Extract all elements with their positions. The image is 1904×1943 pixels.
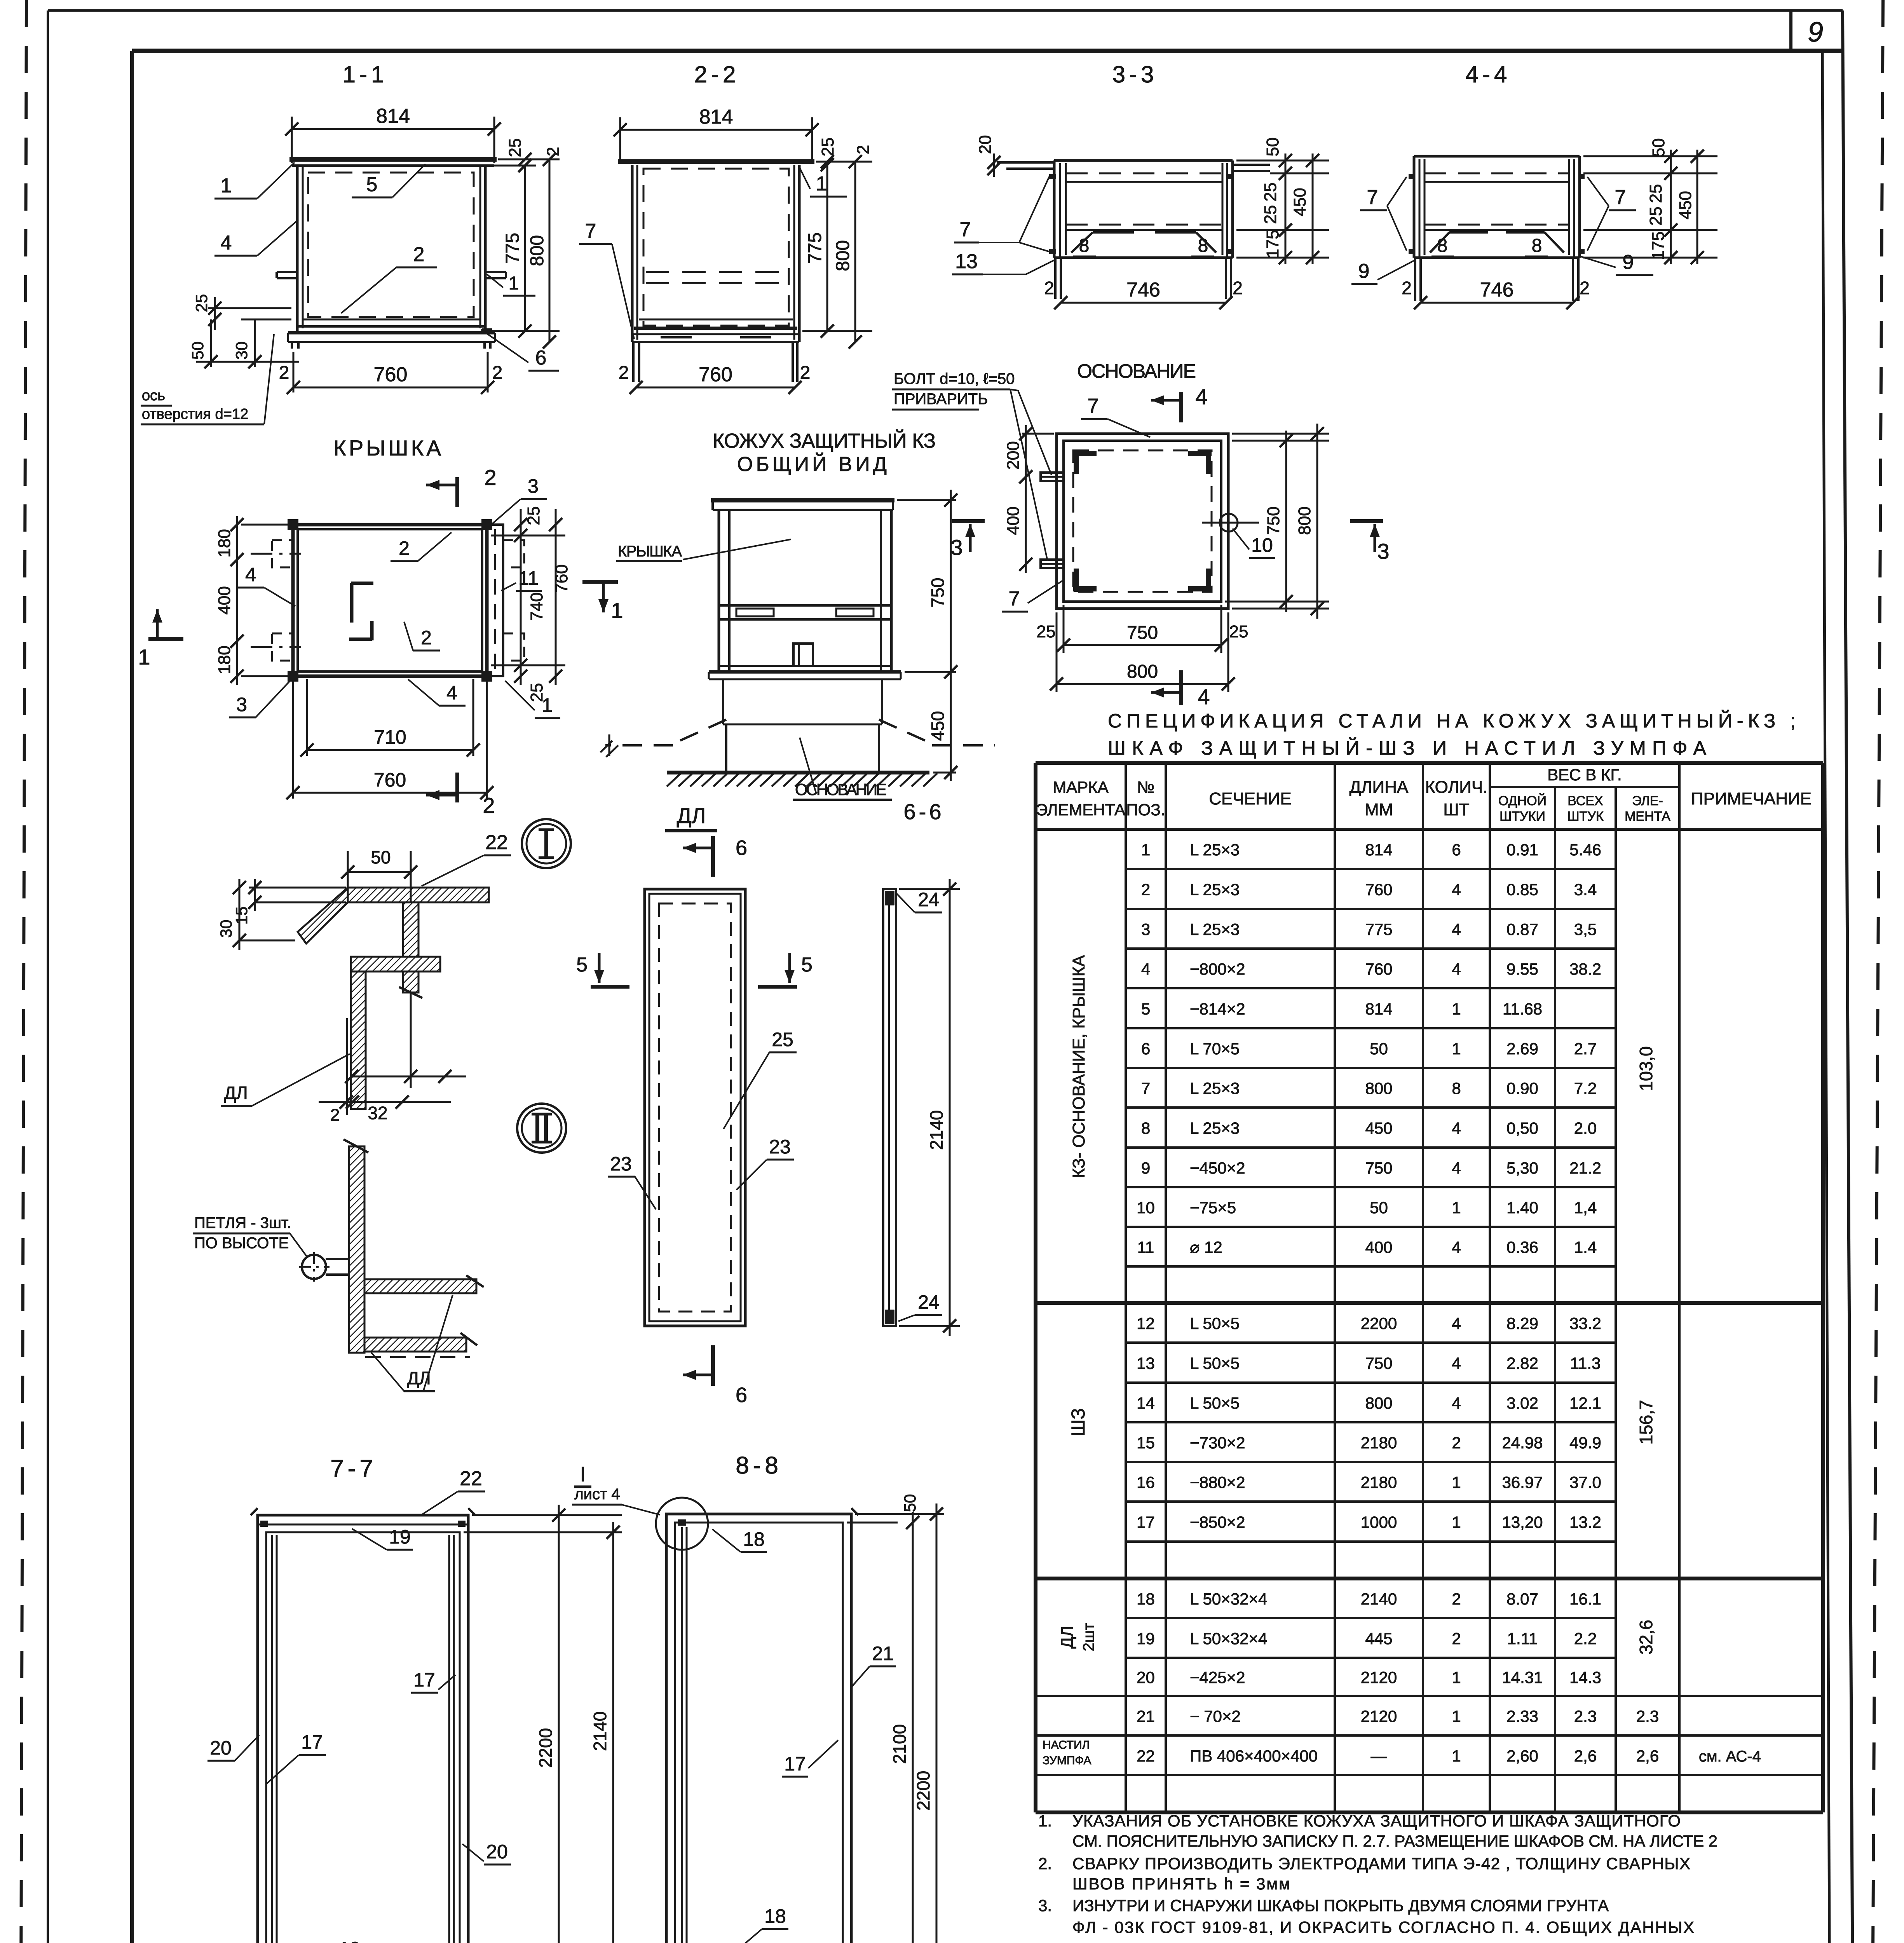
svg-text:2180: 2180 (1361, 1473, 1397, 1491)
svg-text:2.: 2. (1038, 1854, 1052, 1873)
detail II hinge (302, 1255, 326, 1279)
svg-text:ДЛ: ДЛ (224, 1083, 248, 1103)
section 2-2 legs (632, 342, 635, 382)
svg-text:400: 400 (215, 586, 234, 614)
svg-text:16: 16 (1137, 1473, 1155, 1491)
general view pedestal (722, 679, 724, 724)
svg-text:4: 4 (1452, 1394, 1461, 1412)
svg-text:11.3: 11.3 (1570, 1354, 1601, 1373)
svg-text:1.: 1. (1038, 1812, 1052, 1830)
svg-text:18: 18 (764, 1905, 786, 1927)
svg-text:6: 6 (736, 836, 747, 860)
svg-text:ШТУК: ШТУК (1567, 809, 1604, 824)
svg-text:16.1: 16.1 (1569, 1590, 1601, 1608)
svg-text:ИЗНУТРИ И СНАРУЖИ ШКАФЫ: ИЗНУТРИ И СНАРУЖИ ШКАФЫ ПОКРЫТЬ ДВУМЯ СЛ… (1072, 1896, 1609, 1915)
svg-text:−814×2: −814×2 (1190, 1000, 1245, 1018)
osnovanie left dims (1022, 433, 1054, 435)
svg-text:L 50×5: L 50×5 (1190, 1394, 1240, 1412)
svg-text:180: 180 (215, 645, 234, 674)
section 4-4 legs (1414, 258, 1416, 301)
svg-text:−450×2: −450×2 (1190, 1159, 1245, 1177)
svg-text:175: 175 (1263, 230, 1282, 258)
section 3-3 left protrusion (997, 161, 1054, 164)
svg-text:3.02: 3.02 (1506, 1394, 1538, 1412)
svg-text:СВАРКУ ПРОИЗВОДИТЬ ЭЛЕКТР: СВАРКУ ПРОИЗВОДИТЬ ЭЛЕКТРОДАМИ ТИПА Э-42… (1072, 1854, 1690, 1873)
kryshka right tabs (503, 540, 524, 567)
detail I lower vert bar (351, 971, 366, 1109)
svg-text:9: 9 (1808, 17, 1823, 48)
7-7 side strips (271, 1535, 273, 1943)
svg-text:14.3: 14.3 (1569, 1668, 1601, 1687)
svg-text:0,50: 0,50 (1506, 1119, 1538, 1137)
7-7 dims (472, 1514, 622, 1516)
svg-text:−880×2: −880×2 (1190, 1473, 1245, 1491)
section 1-1 feet (291, 342, 293, 349)
roof contour dashed (673, 720, 726, 744)
svg-text:8: 8 (1532, 235, 1542, 256)
svg-text:4: 4 (1198, 684, 1210, 709)
svg-text:1: 1 (1141, 841, 1150, 859)
section 2-2 floor (639, 319, 793, 321)
svg-text:5.46: 5.46 (1569, 841, 1601, 859)
svg-text:13: 13 (1137, 1354, 1155, 1373)
svg-text:4: 4 (1452, 1314, 1461, 1333)
section 1-1 left small dims (208, 307, 291, 309)
svg-text:8: 8 (1141, 1119, 1150, 1137)
svg-text:800: 800 (1295, 506, 1314, 535)
svg-text:21: 21 (872, 1643, 894, 1664)
osnovanie section mark 4 top (1179, 392, 1183, 422)
detail II bottom bar (364, 1338, 466, 1352)
section 1-1 walls (296, 166, 299, 331)
svg-text:см. АС-4: см. АС-4 (1699, 1748, 1761, 1765)
svg-text:1: 1 (1452, 1473, 1461, 1491)
general view bottom flange (719, 665, 891, 667)
svg-text:3,5: 3,5 (1574, 920, 1597, 938)
svg-text:746: 746 (1480, 279, 1514, 301)
kryshka right dims (491, 535, 565, 537)
DL section mark 6 bottom (711, 1345, 715, 1386)
svg-text:760: 760 (1365, 881, 1392, 899)
svg-text:750: 750 (928, 578, 948, 608)
svg-text:50: 50 (1263, 138, 1282, 157)
svg-text:103,0: 103,0 (1636, 1046, 1656, 1091)
svg-text:400: 400 (1004, 506, 1023, 535)
svg-text:12: 12 (1137, 1314, 1155, 1333)
svg-text:3: 3 (1377, 539, 1389, 563)
svg-text:1: 1 (1452, 1040, 1461, 1058)
osnovanie corner angles (1073, 451, 1097, 456)
svg-text:20: 20 (210, 1737, 232, 1759)
svg-text:746: 746 (1126, 279, 1160, 301)
svg-text:25: 25 (772, 1029, 793, 1050)
general view mid band (719, 604, 891, 607)
svg-text:СМ. ПОЯСНИТЕЛЬНУЮ ЗАПИСКУ: СМ. ПОЯСНИТЕЛЬНУЮ ЗАПИСКУ П. 2.7. РАЗМЕЩ… (1072, 1832, 1717, 1850)
svg-text:750: 750 (1365, 1159, 1392, 1177)
svg-text:25: 25 (1037, 622, 1056, 641)
svg-text:33.2: 33.2 (1569, 1314, 1601, 1333)
svg-text:1: 1 (1452, 1747, 1461, 1765)
svg-text:2140: 2140 (590, 1711, 610, 1751)
svg-text:18: 18 (743, 1528, 765, 1550)
svg-text:2: 2 (1452, 1629, 1461, 1648)
svg-text:25: 25 (1261, 183, 1280, 202)
svg-text:2,60: 2,60 (1506, 1747, 1538, 1765)
svg-text:ПРИВАРИТЬ: ПРИВАРИТЬ (894, 391, 988, 408)
svg-text:20: 20 (976, 135, 995, 154)
svg-text:4: 4 (1452, 1238, 1461, 1256)
section 2-2 lid (618, 159, 814, 164)
svg-text:УКАЗАНИЯ ОБ УСТАНОВКЕ КО: УКАЗАНИЯ ОБ УСТАНОВКЕ КОЖУХА ЗАЩИТНОГО И… (1072, 1812, 1681, 1830)
svg-text:2,6: 2,6 (1636, 1747, 1659, 1765)
svg-text:760: 760 (699, 363, 732, 386)
svg-text:лист 4: лист 4 (574, 1486, 620, 1503)
svg-text:25: 25 (1229, 622, 1248, 641)
svg-text:3: 3 (1141, 920, 1150, 938)
section 3-3 legs (1054, 258, 1057, 299)
svg-text:12.1: 12.1 (1569, 1394, 1601, 1412)
svg-text:3: 3 (528, 475, 539, 497)
table row lines (1126, 868, 1616, 870)
svg-text:ОСНОВАНИЕ: ОСНОВАНИЕ (1077, 360, 1196, 382)
svg-text:450: 450 (1676, 191, 1695, 219)
svg-text:24.98: 24.98 (1502, 1434, 1543, 1452)
svg-text:760: 760 (1365, 960, 1392, 978)
svg-text:2: 2 (1233, 278, 1243, 298)
svg-text:7: 7 (960, 218, 971, 241)
svg-text:800: 800 (1365, 1394, 1392, 1412)
svg-text:7: 7 (1088, 395, 1099, 417)
7-7 panel (258, 1515, 468, 1943)
svg-text:9.55: 9.55 (1506, 960, 1538, 978)
svg-text:7: 7 (1367, 186, 1378, 209)
svg-text:ФЛ - 03К ГОСТ 9109-81, И: ФЛ - 03К ГОСТ 9109-81, И ОКРАСИТЬ СОГЛАС… (1072, 1918, 1694, 1936)
svg-text:17: 17 (784, 1753, 806, 1775)
svg-text:2-2: 2-2 (694, 61, 740, 87)
section 2-2 right dims (802, 330, 872, 332)
svg-text:4: 4 (446, 682, 457, 704)
7-7 top overhang (251, 1508, 258, 1515)
svg-text:25: 25 (1261, 205, 1280, 224)
spec table grid (1036, 761, 1823, 765)
svg-text:1: 1 (138, 645, 150, 669)
svg-text:5: 5 (801, 954, 813, 976)
svg-text:50: 50 (901, 1494, 919, 1512)
svg-text:3: 3 (236, 694, 247, 715)
svg-text:11.68: 11.68 (1503, 1000, 1542, 1018)
section 1-1 floor (303, 319, 480, 321)
kryshka section mark 2 top (455, 477, 459, 507)
detail II right flange (364, 1279, 476, 1293)
svg-text:32,6: 32,6 (1636, 1620, 1656, 1655)
svg-text:5: 5 (366, 173, 378, 196)
svg-text:−730×2: −730×2 (1190, 1434, 1245, 1452)
svg-text:КОЖУХ ЗАЩИТНЫЙ КЗ: КОЖУХ ЗАЩИТНЫЙ КЗ (713, 429, 936, 452)
svg-text:ПОЗ.: ПОЗ. (1126, 801, 1165, 819)
osnovanie plan squares (1057, 434, 1228, 609)
svg-text:17: 17 (301, 1731, 323, 1753)
svg-text:49.9: 49.9 (1569, 1434, 1601, 1452)
svg-text:15: 15 (232, 907, 251, 925)
svg-text:11: 11 (1137, 1238, 1154, 1256)
svg-text:ШТУКИ: ШТУКИ (1499, 809, 1545, 824)
svg-text:37.0: 37.0 (1569, 1473, 1601, 1491)
section 4-4 right dims (1583, 155, 1717, 157)
svg-text:750: 750 (1365, 1354, 1392, 1373)
svg-text:КЗ- ОСНОВАНИЕ, КРЫШКА: КЗ- ОСНОВАНИЕ, КРЫШКА (1069, 955, 1088, 1178)
svg-text:2: 2 (854, 145, 873, 154)
detail II circle (517, 1104, 566, 1153)
svg-text:814: 814 (1365, 841, 1392, 859)
section 1-1 lid (289, 157, 497, 162)
section 1-1 right dims (490, 330, 560, 332)
kryshka left tabs (272, 540, 293, 567)
svg-text:19: 19 (1137, 1629, 1155, 1648)
svg-text:L 50×32×4: L 50×32×4 (1190, 1590, 1267, 1608)
svg-text:7.2: 7.2 (1574, 1079, 1597, 1097)
svg-text:№: № (1137, 778, 1154, 796)
svg-text:17: 17 (413, 1669, 435, 1691)
svg-text:7: 7 (1141, 1079, 1150, 1097)
svg-text:10: 10 (1137, 1198, 1155, 1217)
svg-text:800: 800 (1127, 661, 1158, 682)
osnovanie right bolt (1220, 514, 1238, 532)
svg-text:ось: ось (142, 387, 165, 404)
section 4-4 bolts (1409, 174, 1415, 179)
svg-text:4: 4 (221, 232, 232, 254)
svg-text:ОСНОВАНИЕ: ОСНОВАНИЕ (795, 780, 887, 799)
svg-text:4-4: 4-4 (1466, 61, 1511, 87)
svg-text:24: 24 (918, 889, 940, 910)
svg-text:24: 24 (918, 1291, 940, 1313)
svg-text:3.: 3. (1038, 1896, 1052, 1915)
svg-text:6: 6 (535, 347, 547, 369)
sheet paper edge (48, 9, 1843, 12)
svg-text:7-7: 7-7 (330, 1455, 377, 1482)
general view walls (718, 510, 720, 671)
kryshka plan rect (293, 525, 487, 676)
svg-text:L 25×3: L 25×3 (1190, 1079, 1240, 1097)
kryshka section mark 1 right (582, 580, 618, 584)
svg-text:− 70×2: − 70×2 (1190, 1707, 1241, 1725)
svg-text:2200: 2200 (535, 1728, 556, 1768)
svg-text:22: 22 (460, 1467, 482, 1490)
DL section mark 6 top (711, 836, 715, 877)
svg-text:36.97: 36.97 (1502, 1473, 1543, 1491)
svg-text:2.33: 2.33 (1506, 1707, 1538, 1725)
DL panel (645, 889, 745, 1326)
detail I dims 2 32 (346, 1018, 348, 1115)
section 3-3 right protrusion (1233, 164, 1270, 166)
svg-text:I: I (580, 1463, 586, 1486)
svg-text:1: 1 (1452, 1707, 1461, 1725)
section 1-1 inner dashed (308, 173, 474, 317)
svg-text:7: 7 (1615, 186, 1626, 209)
svg-text:450: 450 (1365, 1119, 1392, 1137)
kryshka section mark 1 left (148, 637, 183, 641)
osnovanie right dims (1232, 440, 1329, 442)
section 4-4 body (1414, 155, 1580, 158)
svg-text:32: 32 (368, 1103, 387, 1123)
svg-text:ОДНОЙ: ОДНОЙ (1498, 794, 1547, 808)
svg-text:25: 25 (1646, 184, 1665, 203)
section 1-1 bottom dim 760 (293, 387, 488, 389)
svg-text:20: 20 (1137, 1668, 1155, 1687)
svg-text:2.3: 2.3 (1574, 1707, 1597, 1725)
svg-text:⌀ 12: ⌀ 12 (1190, 1238, 1222, 1256)
svg-text:2: 2 (1580, 278, 1590, 298)
svg-text:800: 800 (1365, 1079, 1392, 1097)
svg-text:L 25×3: L 25×3 (1190, 1119, 1240, 1137)
svg-text:ДЛ: ДЛ (677, 803, 706, 828)
svg-text:25: 25 (524, 506, 543, 525)
svg-text:710: 710 (374, 726, 406, 748)
svg-text:ВСЕХ: ВСЕХ (1567, 794, 1603, 808)
section 4-4 gussets (1430, 232, 1449, 253)
svg-text:5: 5 (576, 954, 588, 976)
svg-text:4: 4 (1452, 1354, 1461, 1373)
svg-text:2140: 2140 (1361, 1590, 1397, 1608)
svg-text:8.29: 8.29 (1506, 1314, 1538, 1333)
svg-text:814: 814 (376, 105, 410, 127)
svg-text:760: 760 (552, 564, 571, 593)
svg-text:13: 13 (955, 250, 978, 273)
svg-text:1: 1 (509, 273, 519, 294)
section 1-1 hooks (277, 271, 297, 273)
svg-text:7: 7 (1009, 588, 1020, 610)
svg-text:6: 6 (1141, 1040, 1150, 1058)
svg-text:20: 20 (486, 1841, 508, 1863)
svg-text:2.7: 2.7 (1574, 1040, 1597, 1058)
svg-text:775: 775 (502, 233, 523, 264)
svg-text:КРЫШКА: КРЫШКА (618, 543, 682, 560)
svg-text:175: 175 (1649, 231, 1668, 260)
8-8 top detail circle (656, 1498, 708, 1550)
svg-text:50: 50 (1649, 138, 1668, 157)
svg-text:1: 1 (816, 173, 827, 195)
osnovanie bottom dims (1063, 605, 1065, 653)
svg-text:8: 8 (1452, 1079, 1461, 1097)
osnovanie section mark 4 bottom (1179, 670, 1183, 705)
svg-text:3-3: 3-3 (1112, 61, 1158, 87)
svg-text:10: 10 (1251, 534, 1273, 556)
svg-text:НАСТИЛ: НАСТИЛ (1043, 1739, 1090, 1751)
detail I lower horiz bar (351, 957, 440, 971)
svg-text:2200: 2200 (913, 1771, 933, 1810)
svg-text:4: 4 (245, 564, 256, 586)
svg-text:2: 2 (1402, 278, 1412, 298)
svg-text:19: 19 (339, 1938, 361, 1943)
svg-text:775: 775 (805, 232, 825, 263)
svg-text:1: 1 (1452, 1513, 1461, 1531)
section 2-2 bottom dim 760 (636, 387, 795, 389)
svg-text:760: 760 (374, 363, 408, 386)
detail II vertical bar (349, 1146, 364, 1353)
svg-text:180: 180 (215, 529, 234, 557)
svg-text:1.11: 1.11 (1507, 1629, 1538, 1648)
svg-text:21: 21 (1137, 1707, 1155, 1725)
svg-text:2200: 2200 (1361, 1314, 1397, 1333)
svg-text:25: 25 (506, 138, 525, 157)
detail I top bar (348, 888, 489, 902)
svg-text:21.2: 21.2 (1569, 1159, 1601, 1177)
svg-text:2.82: 2.82 (1506, 1354, 1538, 1373)
svg-text:0.90: 0.90 (1506, 1079, 1538, 1097)
osnovanie left bolt tabs (1041, 473, 1064, 481)
svg-text:ПРИМЕЧАНИЕ: ПРИМЕЧАНИЕ (1691, 789, 1812, 808)
svg-text:2: 2 (800, 363, 811, 383)
detail I angled flap (298, 888, 348, 944)
svg-text:2180: 2180 (1361, 1434, 1397, 1452)
svg-text:2.2: 2.2 (1574, 1629, 1597, 1648)
svg-text:L 50×32×4: L 50×32×4 (1190, 1629, 1267, 1648)
svg-text:9: 9 (1141, 1159, 1150, 1177)
svg-text:4: 4 (1452, 1119, 1461, 1137)
svg-text:0.85: 0.85 (1506, 881, 1538, 899)
svg-text:1: 1 (221, 174, 232, 197)
detail I circle (522, 819, 571, 868)
svg-text:1: 1 (1452, 1668, 1461, 1687)
section 3-3 bolts (1049, 174, 1056, 179)
svg-text:1: 1 (1452, 1198, 1461, 1217)
svg-text:СЕЧЕНИЕ: СЕЧЕНИЕ (1209, 789, 1292, 808)
svg-text:1000: 1000 (1361, 1513, 1397, 1531)
section 2-2 inner dashed (643, 169, 789, 326)
svg-text:2140: 2140 (926, 1110, 947, 1150)
svg-text:9: 9 (1623, 251, 1634, 274)
svg-text:1: 1 (1452, 1000, 1461, 1018)
svg-text:445: 445 (1365, 1629, 1392, 1648)
svg-text:775: 775 (1365, 920, 1392, 938)
svg-text:5: 5 (1141, 1000, 1150, 1018)
svg-text:814: 814 (699, 106, 733, 128)
svg-text:L 70×5: L 70×5 (1190, 1040, 1240, 1058)
svg-text:2: 2 (492, 363, 503, 383)
svg-text:8: 8 (1437, 235, 1448, 256)
svg-text:0.91: 0.91 (1506, 841, 1538, 859)
general view handle (793, 644, 813, 666)
svg-text:19: 19 (389, 1526, 411, 1548)
svg-text:−75×5: −75×5 (1190, 1198, 1236, 1217)
section 3-3 right dims (1236, 160, 1329, 162)
svg-text:6: 6 (736, 1383, 747, 1407)
svg-text:740: 740 (527, 592, 546, 621)
svg-text:1: 1 (542, 694, 553, 716)
svg-text:400: 400 (1365, 1238, 1392, 1256)
svg-text:2.69: 2.69 (1506, 1040, 1538, 1058)
svg-text:23: 23 (610, 1153, 632, 1175)
svg-text:—: — (1371, 1747, 1387, 1765)
svg-text:750: 750 (1127, 623, 1158, 643)
svg-text:25: 25 (1646, 207, 1665, 226)
ground line (667, 771, 929, 774)
svg-text:ПЕТЛЯ - 3шт.: ПЕТЛЯ - 3шт. (194, 1214, 291, 1231)
section 1-1 dim 814 (292, 128, 494, 130)
svg-text:ШТ: ШТ (1443, 800, 1469, 819)
svg-text:L 25×3: L 25×3 (1190, 841, 1240, 859)
svg-text:2120: 2120 (1361, 1707, 1397, 1725)
svg-text:ОБЩИЙ ВИД: ОБЩИЙ ВИД (737, 453, 887, 476)
svg-text:5,30: 5,30 (1506, 1159, 1538, 1177)
section 2-2 dim 814 (620, 129, 812, 131)
svg-text:2100: 2100 (889, 1724, 910, 1764)
kryshka section mark 2 bottom (455, 773, 459, 802)
svg-text:22: 22 (485, 831, 508, 854)
svg-text:КОЛИЧ.: КОЛИЧ. (1425, 778, 1488, 797)
svg-text:6: 6 (1452, 841, 1461, 859)
detail I vertical bar (403, 902, 418, 992)
svg-text:ПВ 406×400×400: ПВ 406×400×400 (1190, 1747, 1318, 1765)
